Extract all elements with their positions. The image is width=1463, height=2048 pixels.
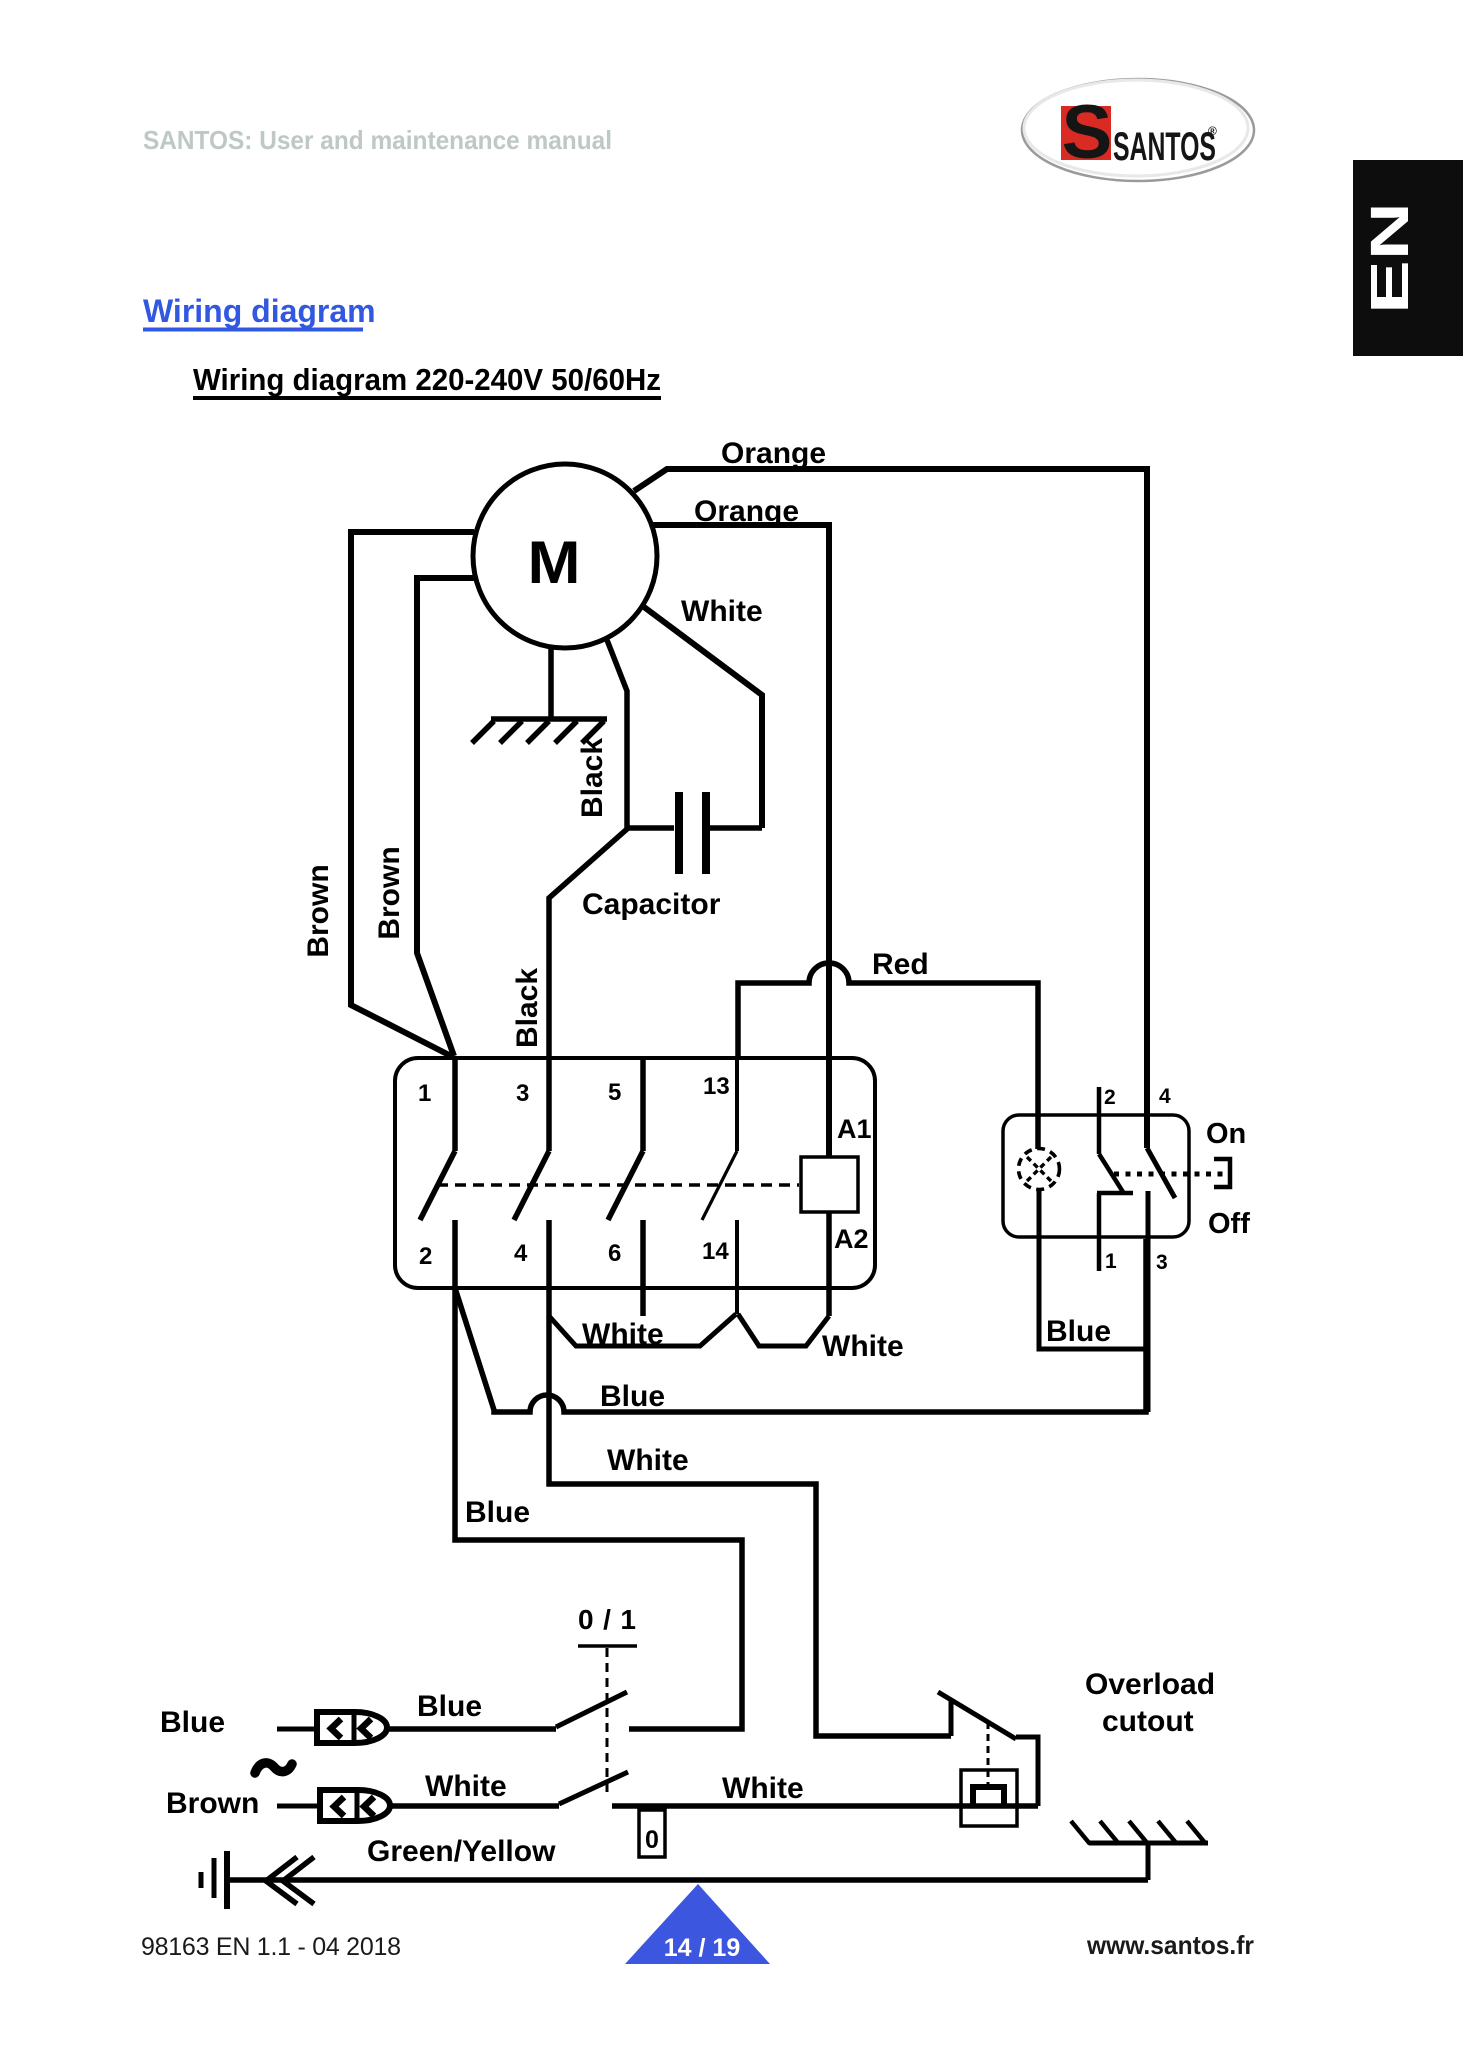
svg-text:Red: Red [872,948,929,981]
rocker switch box [1003,1115,1189,1237]
svg-text:Wiring diagram 220-240V 50/60H: Wiring diagram 220-240V 50/60Hz [193,362,661,397]
svg-text:Black: Black [511,968,544,1048]
svg-text:Off: Off [1208,1208,1250,1240]
svg-text:M: M [528,529,581,596]
indicator lamp (dashed circle with X) [1019,1149,1060,1190]
svg-text:Blue: Blue [417,1690,482,1723]
svg-text:Green/Yellow: Green/Yellow [367,1835,556,1868]
svg-text:0: 0 [645,1826,659,1854]
svg-text:www.santos.fr: www.santos.fr [1086,1930,1254,1960]
svg-text:13: 13 [703,1073,730,1100]
~ AC symbol [255,1763,292,1773]
svg-text:Brown: Brown [166,1787,259,1820]
contactor pole 5-6 [608,1058,643,1316]
svg-text:1: 1 [1105,1250,1117,1273]
contactor box [395,1058,875,1288]
0/1 switch blade (white pole) [559,1772,628,1804]
earth electrode symbol (left) [201,1851,227,1909]
earth symbol under motor [472,719,607,743]
svg-text:5: 5 [608,1079,621,1106]
wire brown 2 to contactor terminal 1 [417,578,477,1056]
svg-text:A2: A2 [834,1224,869,1254]
contactor pole 1-2 [420,1058,455,1288]
motor M circle [473,464,657,648]
svg-text:Overload: Overload [1085,1668,1215,1701]
wire brown 1 to contactor terminal 1 [351,532,474,1057]
svg-text:4: 4 [1159,1085,1171,1108]
coil A2 lead [826,1212,832,1316]
svg-text:White: White [425,1770,507,1803]
svg-text:Blue: Blue [600,1380,665,1413]
wire orange (top) motor to switch terminal 4 [634,469,1147,1148]
contactor auxiliary pole 13-14 [702,1058,737,1314]
svg-text:White: White [681,595,763,628]
switch contact 2-1 [1097,1087,1133,1271]
svg-text:3: 3 [516,1080,529,1107]
svg-text:Orange: Orange [721,437,826,470]
capacitor plates [679,792,706,874]
switch mechanical dotted link with actuator bracket [1114,1172,1224,1177]
wire orange (second) motor to contactor coil A1 [652,525,829,1157]
capacitor left lead [627,825,674,831]
svg-text:3: 3 [1156,1251,1168,1274]
overload cutout contact [938,1692,1038,1806]
contactor linkage dashed line [437,1183,799,1187]
wire red terminal 13 to lamp [738,963,1038,1149]
svg-text:Orange: Orange [694,495,799,528]
wire white from 0/1 switch to overload heater [612,1803,1038,1809]
0 position box [639,1810,665,1857]
svg-text:SANTOS: User and maintenance m: SANTOS: User and maintenance manual [143,125,612,155]
white jumper cup terminal14-A2 [738,1314,829,1346]
wire blue lower: terminal 2 down to 0/1 switch [455,1288,742,1729]
svg-text:Wiring diagram: Wiring diagram [143,293,376,329]
svg-text:Brown: Brown [302,864,335,957]
wire white motor to capacitor right plate [644,607,762,828]
overload heater element [961,1770,1017,1826]
double chevron on earth line [266,1857,297,1904]
wire green/yellow earth line [226,1877,1148,1883]
contactor pole 3-4 [514,1058,549,1288]
capacitor right lead [710,825,762,831]
svg-text:Capacitor: Capacitor [582,888,721,921]
wire white terminal 4 down to overload cutout [549,1288,951,1736]
svg-text:Blue: Blue [160,1706,225,1739]
svg-text:2: 2 [1104,1086,1116,1109]
svg-text:White: White [722,1772,804,1805]
svg-text:®: ® [1208,124,1217,138]
svg-text:On: On [1206,1118,1246,1150]
svg-text:A1: A1 [837,1114,872,1144]
svg-text:14: 14 [702,1238,729,1265]
overload dashed link [987,1722,990,1784]
svg-text:cutout: cutout [1102,1705,1194,1738]
wire motor frame to earth [548,645,554,719]
svg-text:14 / 19: 14 / 19 [664,1934,740,1962]
svg-text:1: 1 [418,1080,431,1107]
svg-text:Black: Black [576,738,609,818]
contactor coil square [801,1157,858,1212]
svg-text:White: White [607,1444,689,1477]
logo SANTOS oval [1022,79,1254,181]
svg-text:98163 EN 1.1 - 04 2018: 98163 EN 1.1 - 04 2018 [141,1933,401,1961]
0/1 switch dashed link [606,1648,609,1794]
switch contact 4-3 [1147,1148,1175,1412]
lamp bottom wire to switch terminal 3 [1039,1189,1146,1349]
earth symbol (right, hatched) [1071,1821,1208,1880]
svg-text:White: White [822,1330,904,1363]
svg-text:White: White [582,1318,664,1351]
EN language tab [1353,160,1463,356]
0/1 switch blade (blue pole) [556,1692,627,1727]
svg-text:Blue: Blue [1046,1315,1111,1348]
mains blue lead and connector [277,1727,317,1732]
wire black motor to capacitor left plate and contactor terminal 3 [549,640,627,1058]
svg-text:Brown: Brown [373,846,406,939]
svg-text:4: 4 [514,1240,528,1267]
svg-text:2: 2 [419,1243,432,1270]
wire blue long: terminal 2 to switch terminal 3 [455,1239,1146,1412]
svg-text:EN: EN [1360,202,1420,314]
svg-text:S: S [1062,90,1113,175]
mains brown lead and connector [277,1804,320,1809]
svg-text:0 / 1: 0 / 1 [578,1604,636,1635]
svg-text:Blue: Blue [465,1496,530,1529]
svg-text:6: 6 [608,1240,621,1267]
svg-text:SANTOS: SANTOS [1113,125,1216,169]
white jumper cup terminal4-terminal14 [549,1314,736,1346]
footer page triangle [625,1884,770,1964]
